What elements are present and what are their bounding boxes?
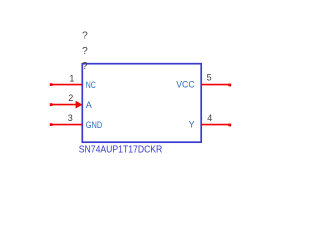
pin 3 wire bbox=[51, 124, 82, 126]
pin 2 endpoint marker bbox=[50, 103, 53, 106]
svg-text:3: 3 bbox=[68, 113, 73, 123]
svg-text:5: 5 bbox=[207, 73, 212, 83]
svg-text:VCC: VCC bbox=[176, 80, 195, 90]
svg-text:?: ? bbox=[82, 61, 88, 72]
pin 5 endpoint marker bbox=[228, 84, 231, 87]
IC U? body rectangle bbox=[82, 64, 201, 143]
svg-text:A: A bbox=[86, 100, 92, 110]
svg-text:1: 1 bbox=[69, 73, 74, 83]
pin 1 wire bbox=[51, 84, 82, 86]
pin 4 endpoint marker bbox=[228, 124, 231, 127]
svg-text:SN74AUP1T17DCKR: SN74AUP1T17DCKR bbox=[79, 144, 163, 155]
pin 4 wire bbox=[201, 124, 230, 126]
svg-text:Y: Y bbox=[189, 120, 195, 130]
svg-text:?: ? bbox=[82, 46, 88, 57]
svg-text:NC: NC bbox=[86, 80, 96, 90]
pin 2 wire bbox=[51, 104, 77, 106]
svg-text:4: 4 bbox=[207, 113, 212, 123]
svg-text:?: ? bbox=[82, 31, 88, 42]
svg-text:2: 2 bbox=[68, 93, 73, 103]
pin 5 wire bbox=[201, 84, 230, 86]
svg-text:GND: GND bbox=[86, 120, 103, 130]
pin 2 input arrowhead bbox=[76, 101, 83, 109]
pin 1 endpoint marker bbox=[50, 83, 53, 86]
pin 3 endpoint marker bbox=[50, 123, 53, 126]
